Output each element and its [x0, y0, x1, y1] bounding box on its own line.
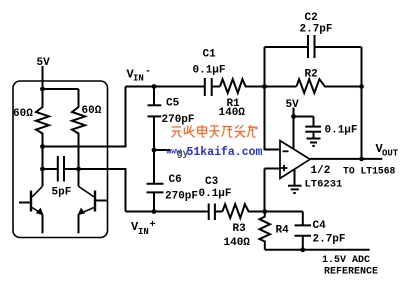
svg-text:R2: R2 — [305, 69, 318, 81]
svg-text:C3: C3 — [205, 176, 219, 188]
svg-text:140Ω: 140Ω — [224, 237, 251, 249]
svg-text:TO LT1568: TO LT1568 — [343, 166, 396, 177]
svg-text:IN: IN — [133, 74, 144, 84]
svg-text:R4: R4 — [276, 225, 290, 237]
svg-text:60Ω: 60Ω — [13, 108, 33, 120]
svg-text:0.1µF: 0.1µF — [325, 125, 358, 137]
svg-text:140Ω: 140Ω — [219, 107, 246, 119]
svg-text:REFERENCE: REFERENCE — [324, 267, 378, 278]
svg-text:5V: 5V — [37, 57, 51, 69]
svg-text:+: + — [150, 220, 156, 231]
svg-text:C4: C4 — [313, 220, 327, 232]
svg-text:1.5V ADC: 1.5V ADC — [322, 255, 370, 266]
svg-text:IN: IN — [138, 227, 149, 237]
svg-text:R3: R3 — [233, 223, 247, 235]
svg-text:5V: 5V — [286, 99, 300, 111]
svg-text:LT6231: LT6231 — [305, 179, 343, 191]
svg-text:C6: C6 — [169, 174, 182, 186]
svg-text:0.1µF: 0.1µF — [199, 188, 232, 200]
svg-text:OUT: OUT — [382, 149, 399, 159]
svg-text:270pF: 270pF — [162, 114, 195, 126]
svg-text:60Ω: 60Ω — [82, 105, 102, 117]
svg-text:1/2: 1/2 — [311, 165, 331, 177]
svg-text:5pF: 5pF — [52, 187, 72, 199]
svg-text:C1: C1 — [203, 49, 217, 61]
svg-text:C5: C5 — [166, 98, 180, 110]
svg-text:2.7pF: 2.7pF — [313, 234, 346, 246]
svg-text:C2: C2 — [305, 12, 318, 24]
svg-text:2.7pF: 2.7pF — [300, 24, 333, 36]
svg-text:270pF: 270pF — [165, 191, 198, 203]
svg-text:51kaifa.com: 51kaifa.com — [187, 146, 263, 159]
svg-text:0.1µF: 0.1µF — [193, 65, 226, 77]
svg-text:-: - — [145, 67, 151, 78]
